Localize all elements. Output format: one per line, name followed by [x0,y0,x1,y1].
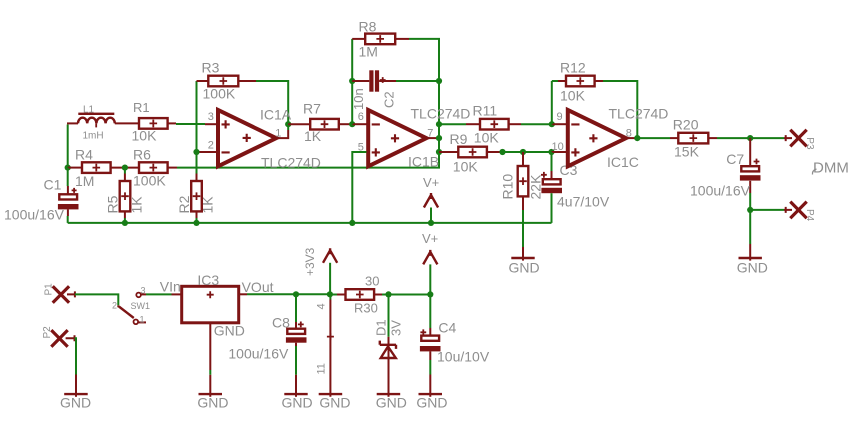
svg-text:1K: 1K [129,196,145,214]
svg-text:100u/16V: 100u/16V [4,207,65,223]
svg-text:R3: R3 [202,60,220,76]
wire IC3 VOut to C8 node [239,293,247,295]
wire R9 left stub [439,151,458,153]
junction pin9/R11/R12 [549,121,555,127]
svg-text:GND: GND [214,323,245,339]
wire R4 to R6 [111,167,139,169]
ground D1 [376,394,407,410]
wire R12 right to output IC1C [595,80,603,82]
svg-text:100u/16V: 100u/16V [228,346,289,362]
wire to P3 [750,137,784,139]
DMM tick mark [812,169,816,175]
svg-text:IC1C: IC1C [607,154,639,170]
svg-text:GND: GND [319,395,350,411]
resistor R20 [678,133,708,144]
svg-text:GND: GND [737,260,768,276]
wire output pin1 IC1A [276,130,288,138]
pin P4 [790,202,806,219]
resistor R5 [120,168,131,223]
IC3 regulator [182,286,239,323]
junction pin2/R3/R2 [193,149,199,155]
supply +3V3 arrow [323,248,337,294]
svg-text:3V: 3V [389,320,404,336]
pin P2 [51,330,74,347]
svg-text:VOut: VOut [242,279,274,295]
svg-text:R9: R9 [450,131,468,147]
svg-text:C4: C4 [438,320,456,336]
ground opamp power [319,394,351,410]
svg-text:+3V3: +3V3 [303,247,317,276]
resistor R3 [208,76,238,87]
svg-text:R6: R6 [133,147,151,163]
svg-text:R8: R8 [359,19,377,35]
svg-text:2: 2 [112,301,117,311]
wire L1 to R1 [115,122,139,124]
wire to P4 [750,209,784,211]
junction R11 takeoff [436,121,442,127]
resistor R30 [346,289,375,300]
capacitor C4 [420,294,441,396]
wire R8 right to right vertical [395,38,409,40]
svg-text:30: 30 [365,274,379,289]
svg-text:1: 1 [140,315,145,325]
svg-text:IC1B: IC1B [408,153,439,169]
inductor L1 [78,113,115,128]
svg-text:TLC274D: TLC274D [411,106,471,122]
wire R11 left [439,123,466,125]
svg-text:11: 11 [316,363,328,374]
wire switch to IC3 VIn [141,293,146,295]
svg-text:R20: R20 [673,117,699,133]
svg-text:R12: R12 [560,60,586,76]
svg-text:C7: C7 [726,151,744,167]
svg-text:6: 6 [358,111,364,123]
svg-text:C8: C8 [272,315,290,331]
capacitor C8 [286,294,307,397]
svg-text:V+: V+ [423,175,439,190]
supply V+ lower [423,250,437,294]
svg-text:R5: R5 [105,195,121,213]
wire output pin8 IC1C [626,137,637,139]
svg-text:P3: P3 [804,137,815,150]
svg-text:4: 4 [316,303,328,309]
svg-text:10u/10V: 10u/10V [437,349,490,365]
switch SW1 [118,293,146,325]
svg-text:R30: R30 [354,301,378,316]
wire P2 to ground [75,338,77,374]
svg-text:R7: R7 [303,101,321,117]
svg-text:IC1A: IC1A [260,107,292,123]
resistor R6 [139,162,168,173]
junction pin6/R7/C2 [349,121,355,127]
svg-text:3: 3 [208,111,214,123]
junction C8 [293,291,299,297]
svg-text:IC3: IC3 [197,272,219,288]
svg-text:R4: R4 [75,147,93,163]
junction output IC1A / R7 [285,121,291,127]
wire input node left vertical C1/L1 [67,125,69,168]
junction R9 takeoff [436,149,442,155]
ground P2 [60,394,91,410]
ground C4 [416,394,447,410]
svg-text:GND: GND [376,395,407,411]
wire pin2 stub [200,151,217,153]
capacitor C7 [740,138,761,210]
svg-text:GND: GND [416,395,447,411]
wire P1 to switch [75,294,118,305]
svg-text:10K: 10K [453,159,479,175]
junction C7/P4/GND [747,207,753,213]
wire R11 right to pin9 node [509,123,521,125]
resistor R8 [365,34,395,45]
diode D1 zener 3V [380,294,396,396]
ground R10 [509,258,540,276]
wire R30 right to V+ node [374,294,382,296]
svg-text:GND: GND [197,395,228,411]
svg-text:1K: 1K [304,128,322,144]
op-amp IC1C [568,110,626,166]
ground C7 [737,258,768,276]
wire IC3 GND pin [209,323,211,370]
junction R9 right [499,149,505,155]
svg-text:SW1: SW1 [131,301,151,311]
junction node A R4/L1/C1 [65,165,71,171]
junction V+ on rail [428,220,434,226]
junction R10 takeoff [520,149,526,155]
svg-text:1K: 1K [200,196,216,214]
wire output pin7 IC1B [426,137,439,139]
wire C7 to ground [749,210,751,244]
wire pin9 stub [552,123,566,125]
wire R8 left stub [352,38,365,40]
wire R7 right to pin6 node [339,123,352,125]
supply V+ upper [424,193,438,223]
svg-text:R2: R2 [176,195,192,213]
svg-text:TLC274D: TLC274D [261,154,321,170]
svg-text:2: 2 [208,140,214,152]
junction C2 right [436,78,442,84]
svg-text:100K: 100K [133,173,166,189]
svg-text:4u7/10V: 4u7/10V [557,194,610,210]
wire C2/R8 left vertical [351,39,353,124]
junction R2 on rail [193,220,199,226]
junction R20/C7/P3 [747,135,753,141]
capacitor C2 [352,70,439,91]
junction D1 [385,291,391,297]
svg-text:10n: 10n [351,88,366,110]
resistor R11 [480,119,509,130]
pin P1 [53,286,75,303]
ground IC3 [197,394,228,410]
svg-text:15K: 15K [674,144,700,160]
wire R20 right to C7 node [708,137,717,139]
resistor R4 [82,162,111,173]
svg-text:10: 10 [552,141,564,153]
junction R4/R6/R5 [122,165,128,171]
capacitor C3 [541,152,562,223]
wire R7 left [288,123,310,125]
svg-text:TLC274D: TLC274D [609,106,669,122]
wire R3 right to output node [238,80,256,82]
svg-text:L1: L1 [83,105,95,116]
bias rail wire V+ [68,222,552,224]
wire R20 left [637,137,670,139]
resistor R12 [566,76,595,87]
svg-text:22K: 22K [528,174,544,200]
svg-text:100K: 100K [203,86,236,102]
svg-text:10K: 10K [474,130,500,146]
wire pin6 stub [352,123,366,125]
junction C3 takeoff [548,149,554,155]
wire R6 right long run to IC1B output node [168,167,177,169]
junction C2 left [349,78,355,84]
resistor R2 [191,152,202,223]
svg-text:1M: 1M [75,173,94,189]
svg-text:100u/16V: 100u/16V [690,183,751,199]
wire R3 left stub [197,80,209,82]
wire R9 right to pin10 [487,151,502,153]
resistor R9 [458,147,487,158]
wire L1 left stub [67,122,78,124]
svg-text:GND: GND [509,260,540,276]
svg-text:GND: GND [60,395,91,411]
opamp power pins 4/11 [327,294,334,397]
junction pin7 output [436,135,442,141]
wire pin 5 to bias rail [352,152,366,223]
wire R4 left stub [68,167,82,169]
capacitor C1 [58,168,79,223]
resistor R7 [310,119,339,130]
junction pin5 on rail [349,220,355,226]
svg-text:P2: P2 [42,326,53,339]
junction +3V3 / opamp supply [327,291,333,297]
wire R12 left vertical [552,81,558,124]
ground C8 [282,394,313,410]
pin P3 [790,130,806,147]
wire C8 node to +3V3 node [296,293,330,295]
svg-text:D1: D1 [374,319,389,336]
junction C4/V+ [427,291,433,297]
resistor R1 [139,118,168,129]
resistor R10 [518,152,529,261]
wire pin10 stub [552,151,567,153]
junction R5 on rail [122,220,128,226]
junction output IC1C / R12 [634,135,640,141]
svg-text:1M: 1M [359,44,378,60]
svg-text:V+: V+ [422,231,438,246]
svg-text:9: 9 [557,111,563,123]
svg-text:DMM: DMM [813,160,849,177]
svg-text:C2: C2 [382,91,397,108]
svg-text:R11: R11 [473,103,498,119]
svg-text:VIn: VIn [160,279,181,295]
svg-text:R1: R1 [133,100,150,115]
svg-text:P4: P4 [804,209,815,222]
svg-text:C1: C1 [44,177,62,193]
svg-text:10K: 10K [560,88,586,104]
svg-text:P1: P1 [44,283,55,296]
svg-text:R10: R10 [500,174,516,200]
svg-text:GND: GND [282,395,313,411]
op-amp IC1A [218,110,276,166]
svg-text:1mH: 1mH [83,131,104,142]
wire R1 to pin3 IC1A [168,122,176,124]
svg-text:10K: 10K [132,128,158,144]
wire +3V3 node to R30 [330,294,337,296]
op-amp IC1B [368,110,426,166]
wire R3 left vertical from pin2 node [196,81,198,152]
